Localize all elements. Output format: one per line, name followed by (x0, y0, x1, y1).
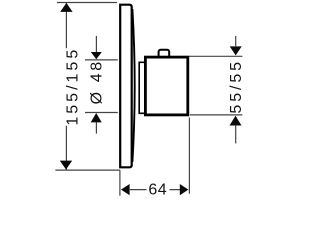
thermostat handle knob (145, 57, 187, 115)
cartridge sleeve between plate and knob (139, 62, 148, 113)
dimension line 64 horizontal (130, 189, 180, 191)
arrowhead down, 155 dim bottom (60, 161, 72, 170)
dimension line dia48 vertical (95, 36, 97, 134)
extension line, bottom of escutcheon plate (155 dim) (55, 169, 120, 171)
dimension line 155/155 vertical (65, 3, 67, 169)
extension line, bottom of handle (55 dim) (190, 114, 243, 116)
arrowhead up, dia48 bottom (91, 113, 102, 122)
arrowhead down, dia48 top (91, 52, 102, 59)
arrowhead up, 55 dim bottom (230, 116, 242, 126)
plate domed front silhouette arc (132, 9, 134, 162)
extension line, top of handle (55 dim) (189, 55, 242, 57)
arrowhead left, 64 dim (121, 184, 130, 195)
extension line, bottom of knob grip (dia 48 dim) (85, 112, 118, 114)
extension line, right of 64 depth dim (handle front) (188, 118, 190, 194)
escutcheon plate outline (side view) (120, 5, 132, 168)
safety stop button on top of knob (159, 50, 170, 60)
arrowhead down, 55 dim top (230, 46, 242, 55)
arrowhead right, 64 dim (180, 184, 189, 195)
dimension line 55/55 vertical (235, 36, 237, 143)
svg-text:155/155: 155/155 (64, 47, 81, 126)
arrowhead up, 155 dim top (60, 3, 72, 12)
extension line, top of escutcheon plate (155 dim) (57, 2, 117, 4)
svg-text:55/55: 55/55 (228, 59, 245, 114)
extension line, left of 64 depth dim (wall plane) (119, 170, 121, 196)
svg-text:64: 64 (148, 182, 167, 199)
svg-text:Ø 48: Ø 48 (89, 59, 106, 104)
extension line, top of knob grip (dia 48 dim) (85, 59, 118, 61)
